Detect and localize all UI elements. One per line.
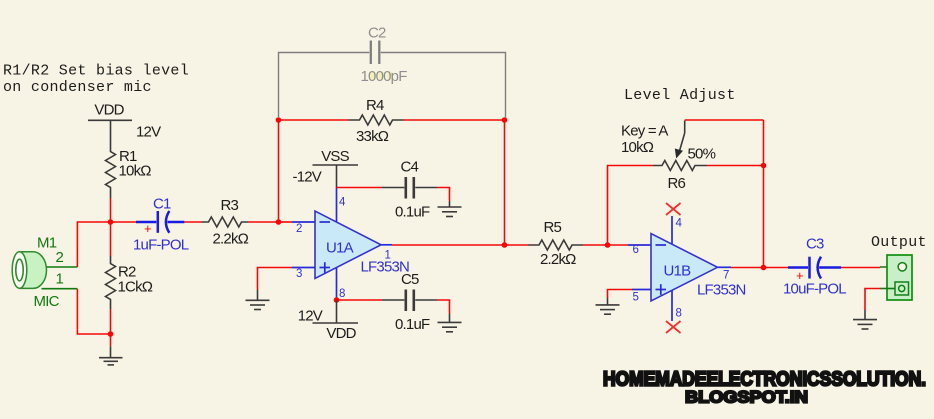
svg-text:33kΩ: 33kΩ: [356, 128, 389, 145]
power VSS symbol: [313, 148, 359, 188]
svg-text:C2: C2: [368, 25, 386, 42]
svg-text:M1: M1: [37, 235, 57, 252]
wire node B up to R6 left: [608, 166, 654, 246]
node A junction: [276, 219, 282, 225]
svg-text:10kΩ: 10kΩ: [119, 163, 152, 180]
ground (C4): [438, 201, 462, 217]
resistor R2: [106, 256, 153, 309]
svg-text:R6: R6: [668, 175, 686, 192]
wire mic pin 2 to node: [45, 222, 111, 267]
junction R4 rail left: [276, 117, 282, 123]
potentiometer R6: [621, 121, 716, 193]
microphone M1: [12, 235, 63, 311]
wire R6 right terminal: [707, 165, 764, 167]
svg-text:C3: C3: [806, 236, 824, 253]
U1B pin 5 wire: [608, 290, 652, 299]
wire down to U1B output node: [763, 120, 765, 268]
wire C1 to R3: [184, 221, 201, 223]
U1B output wire pin 7: [718, 266, 764, 268]
svg-text:R4: R4: [366, 97, 384, 114]
junction R6 right: [761, 163, 767, 169]
capacitor C4: [382, 159, 437, 221]
junction node B: [605, 242, 611, 248]
svg-text:VSS: VSS: [321, 148, 349, 165]
power VDD symbol (bottom): [313, 300, 359, 342]
junction U1B output: [761, 265, 767, 271]
svg-text:50%: 50%: [688, 146, 716, 163]
X mark pin 4: [666, 203, 681, 215]
U1A pin 8 wire: [336, 268, 338, 300]
wire R4 rail right: [404, 119, 505, 121]
svg-text:12V: 12V: [136, 124, 161, 141]
wire mic pin 1 to ground node: [42, 289, 111, 334]
wire R3 to node A: [248, 221, 279, 223]
wire wiper rail: [685, 119, 764, 121]
svg-text:2.2kΩ: 2.2kΩ: [540, 251, 576, 268]
junction output/R5: [502, 242, 508, 248]
svg-text:6: 6: [633, 244, 639, 256]
wire connector pin 2 to ground: [865, 289, 895, 311]
wire node A up to R4 rail: [278, 120, 280, 222]
op-amp U1B: [633, 218, 746, 320]
wire feedback right vertical: [504, 120, 506, 245]
svg-text:LF353N: LF353N: [697, 282, 746, 299]
svg-text:2.2kΩ: 2.2kΩ: [213, 231, 249, 248]
connector J1 output: [887, 255, 912, 300]
note: R1/R2 Set bias level on condenser mic: [3, 63, 189, 97]
capacitor C5: [382, 271, 437, 333]
svg-text:10uF-POL: 10uF-POL: [783, 281, 846, 298]
svg-text:1CkΩ: 1CkΩ: [118, 279, 153, 296]
svg-text:8: 8: [676, 308, 682, 320]
U1A output wire pin 1: [381, 244, 505, 246]
svg-text:on condenser mic: on condenser mic: [3, 79, 152, 96]
svg-text:2: 2: [296, 223, 302, 235]
svg-text:0.1uF: 0.1uF: [395, 316, 430, 333]
ground (U1A pin 3): [246, 290, 270, 310]
resistor R3: [202, 197, 249, 248]
wire R1 bottom to node: [110, 198, 112, 222]
wire node to C1: [111, 221, 137, 223]
svg-text:1: 1: [385, 250, 391, 262]
wire node B to U1B pin 6: [608, 244, 652, 246]
capacitor C1 (1uF-POL): [133, 196, 189, 254]
svg-text:8: 8: [339, 288, 345, 300]
svg-text:U1A: U1A: [326, 240, 354, 257]
wire node to R2 top: [110, 222, 112, 256]
svg-text:10kΩ: 10kΩ: [621, 139, 654, 156]
svg-text:3: 3: [296, 268, 302, 280]
op-amp U1A: [296, 197, 409, 301]
ground (output): [853, 310, 877, 329]
svg-text:VDD: VDD: [94, 102, 124, 119]
junction R4 rail right: [502, 117, 508, 123]
ground (below mic): [99, 334, 123, 365]
svg-text:1000pF: 1000pF: [361, 68, 408, 85]
U1A pin 3 wire: [258, 268, 316, 291]
wire output node to C3: [764, 267, 789, 269]
svg-text:C1: C1: [153, 196, 171, 213]
resistor R4: [349, 97, 404, 145]
power VDD (top): [88, 102, 132, 121]
wire R4 rail left: [279, 119, 349, 121]
U1B pin 8 wire: [671, 290, 673, 321]
wire VSS to C4: [337, 187, 383, 189]
svg-text:0.1uF: 0.1uF: [395, 204, 430, 221]
resistor R1: [106, 120, 152, 198]
svg-text:1uF-POL: 1uF-POL: [133, 237, 189, 254]
svg-text:C5: C5: [401, 271, 419, 288]
junction node bias: [108, 219, 114, 225]
ground (C5): [438, 314, 462, 332]
wire to R5: [505, 244, 529, 246]
svg-text:-12V: -12V: [293, 169, 322, 186]
svg-text:R5: R5: [544, 219, 562, 236]
wire C4 to ground: [437, 188, 450, 202]
svg-text:MIC: MIC: [34, 293, 60, 310]
svg-text:VDD: VDD: [326, 325, 356, 342]
svg-text:1: 1: [56, 271, 64, 288]
svg-text:Output: Output: [871, 234, 927, 251]
wire C3 to connector: [841, 266, 898, 269]
wire node A to U1A pin 2: [279, 221, 316, 223]
svg-text:+: +: [144, 221, 152, 236]
svg-text:C4: C4: [401, 159, 419, 176]
junction pin8/C5: [334, 297, 340, 303]
svg-text:R1/R2 Set bias level: R1/R2 Set bias level: [3, 63, 189, 80]
wire pin8 to C5: [337, 299, 383, 301]
svg-text:2: 2: [56, 249, 64, 266]
U1B pin 4 wire: [671, 216, 673, 244]
X mark pin 8: [666, 321, 681, 333]
svg-text:5: 5: [633, 292, 639, 304]
ground (U1B pin 5): [596, 298, 620, 314]
U1A pin 4 wire: [336, 188, 338, 222]
wire R2 bottom to ground node: [110, 309, 112, 334]
wire C5 to ground: [437, 300, 450, 314]
capacitor C2 branch (grey): [279, 25, 506, 119]
svg-text:4: 4: [676, 218, 683, 230]
svg-text:7: 7: [723, 270, 729, 282]
svg-text:12V: 12V: [298, 308, 323, 325]
svg-text:Level Adjust: Level Adjust: [624, 87, 736, 104]
svg-text:U1B: U1B: [664, 263, 692, 280]
svg-text:4: 4: [339, 197, 346, 209]
wire R5 to node B: [583, 244, 608, 246]
svg-text:BLOGSPOT.IN: BLOGSPOT.IN: [685, 388, 808, 407]
resistor R5: [528, 219, 583, 268]
svg-text:Key = A: Key = A: [621, 123, 668, 140]
junction node mic ground: [108, 331, 114, 337]
capacitor C3 (10uF-POL): [783, 236, 846, 298]
svg-text:R3: R3: [221, 197, 239, 214]
